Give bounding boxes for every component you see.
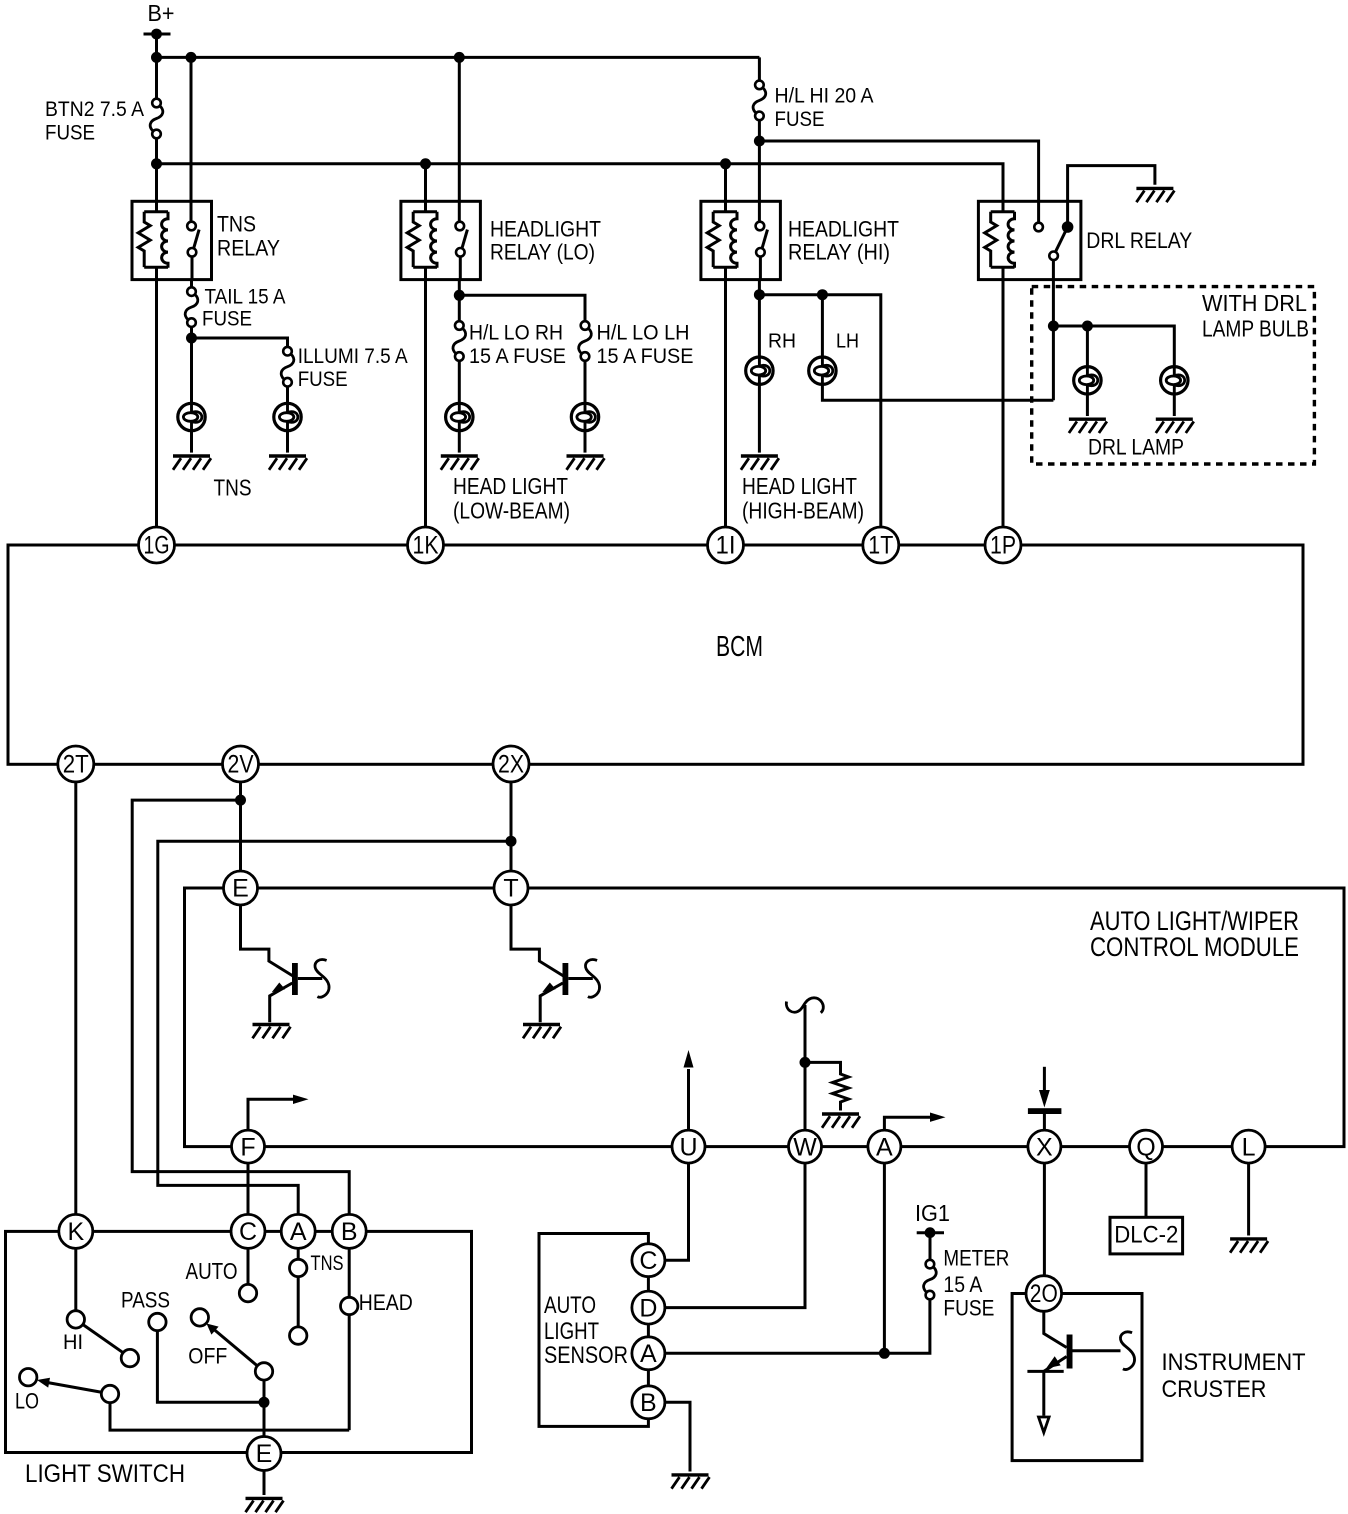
- node connector 2T: [58, 746, 94, 782]
- switch LO contact with arrow: [20, 1369, 37, 1386]
- svg-text:HEAD LIGHT: HEAD LIGHT: [742, 473, 857, 499]
- svg-text:IG1: IG1: [915, 1200, 950, 1226]
- node connector Q: [1130, 1130, 1163, 1163]
- wire: LH high-beam lamp to DRL relay: [822, 384, 1053, 400]
- wire: top B+ bus: [157, 56, 760, 59]
- wire: sensor B to ground: [665, 1402, 690, 1471]
- svg-text:1T: 1T: [868, 532, 893, 560]
- wire: LO relay coil to BCM 1K: [424, 280, 427, 529]
- node connector A (light switch): [281, 1214, 315, 1248]
- wire: 2X to module T and to light switch A: [510, 781, 513, 872]
- node connector 2V: [223, 746, 259, 782]
- svg-text:FUSE: FUSE: [943, 1296, 994, 1321]
- switch TNS contact: [297, 1248, 300, 1260]
- svg-text:HEADLIGHT: HEADLIGHT: [490, 217, 601, 242]
- svg-text:CRUSTER: CRUSTER: [1162, 1376, 1267, 1403]
- fuse METER 15 A: [929, 1233, 932, 1260]
- node junction below TAIL fuse: [186, 333, 197, 344]
- ground (low-beam LH lamp): [567, 456, 605, 470]
- svg-text:TNS: TNS: [311, 1252, 344, 1275]
- switch PASS contact: [149, 1313, 166, 1330]
- svg-text:TNS: TNS: [214, 475, 252, 501]
- node connector C (light switch): [231, 1214, 265, 1248]
- wire/arrow above A: [884, 1117, 931, 1130]
- svg-text:15 A FUSE: 15 A FUSE: [469, 345, 566, 368]
- wire: sensor C to module U: [665, 1163, 689, 1260]
- svg-text:LH: LH: [836, 331, 859, 353]
- node connector 1I: [708, 527, 744, 563]
- ground (resistor): [822, 1114, 860, 1128]
- node connector U: [672, 1130, 705, 1163]
- node connector L: [1232, 1130, 1265, 1163]
- svg-text:RELAY (LO): RELAY (LO): [490, 240, 595, 265]
- node junction DRL feed: [1048, 321, 1059, 332]
- relay HEADLIGHT RELAY (HI): [701, 201, 781, 279]
- node connector 2X: [493, 746, 529, 782]
- node connector B (sensor): [632, 1386, 665, 1419]
- module INSTRUMENT CRUSTER: [1012, 1294, 1142, 1461]
- wire: B+ bus verticals to relay switches: [191, 57, 759, 201]
- svg-text:BTN2 7.5 A: BTN2 7.5 A: [45, 97, 145, 121]
- svg-text:RH: RH: [768, 331, 796, 353]
- lamp head light low-beam LH: [584, 361, 587, 404]
- wire: second bus (after BTN2 fuse): [157, 164, 1004, 202]
- node connector A (sensor): [632, 1337, 665, 1370]
- relay TNS RELAY: [132, 201, 212, 279]
- module AUTO LIGHT/WIPER CONTROL MODULE: [185, 888, 1345, 1147]
- resistor (pull-down on W line): [805, 1062, 849, 1110]
- svg-text:AUTO: AUTO: [544, 1292, 596, 1319]
- svg-text:1I: 1I: [716, 532, 736, 560]
- node connector 1T: [863, 527, 899, 563]
- switch OFF contact with arrow: [191, 1309, 208, 1326]
- node connector 1K: [408, 527, 444, 563]
- node connector K: [59, 1214, 93, 1248]
- wire: LO blade to B line: [110, 1402, 349, 1430]
- svg-text:L: L: [1242, 1133, 1256, 1161]
- wire: X to instrument cluster 2O: [1043, 1163, 1046, 1276]
- svg-text:D: D: [639, 1294, 657, 1322]
- svg-text:B: B: [341, 1218, 358, 1246]
- wire/arrow above F: [248, 1099, 295, 1130]
- fuse TAIL 15 A: [190, 280, 193, 338]
- ground (high-beam RH lamp): [741, 456, 779, 470]
- svg-text:2V: 2V: [228, 751, 254, 779]
- svg-text:(LOW-BEAM): (LOW-BEAM): [453, 498, 570, 524]
- svg-text:METER: METER: [943, 1246, 1009, 1271]
- wire: F to light switch C: [247, 1163, 250, 1215]
- svg-text:2O: 2O: [1030, 1280, 1058, 1308]
- node junction below H/L HI fuse: [754, 136, 765, 147]
- relay HEADLIGHT RELAY (LO): [401, 201, 481, 279]
- lamp DRL left: [1086, 326, 1089, 367]
- switch HI contact: [74, 1248, 77, 1312]
- lamp TNS right: [286, 387, 289, 404]
- svg-text:INSTRUMENT: INSTRUMENT: [1162, 1349, 1306, 1376]
- svg-text:H/L LO LH: H/L LO LH: [597, 322, 690, 345]
- svg-text:ILLUMI 7.5 A: ILLUMI 7.5 A: [298, 344, 409, 368]
- node connector C (sensor): [632, 1244, 665, 1277]
- svg-text:PASS: PASS: [121, 1288, 170, 1313]
- node junction on B+ bus at TNS feed: [151, 52, 162, 63]
- svg-text:DRL RELAY: DRL RELAY: [1086, 228, 1192, 253]
- wire: second bus verticals to relay coils: [426, 164, 726, 202]
- svg-text:FUSE: FUSE: [298, 367, 348, 391]
- fuse BTN2 7.5 A: [155, 57, 158, 163]
- ground (TNS right lamp): [269, 456, 307, 470]
- lamp TNS left: [190, 338, 193, 404]
- svg-text:H/L HI 20 A: H/L HI 20 A: [775, 84, 875, 108]
- svg-text:C: C: [239, 1218, 257, 1246]
- wire/arrow above U: [687, 1069, 690, 1130]
- wire: HI relay switch to lamps and BCM 1T: [758, 280, 761, 295]
- svg-text:2X: 2X: [498, 751, 524, 779]
- svg-text:RELAY: RELAY: [217, 236, 280, 261]
- svg-text:LIGHT: LIGHT: [544, 1318, 599, 1345]
- fuse H/L LO LH 15 A: [579, 321, 592, 361]
- node connector E (module top): [224, 871, 258, 905]
- wire above W with squiggle and resistor to ground: [804, 1005, 807, 1130]
- svg-text:HEAD: HEAD: [359, 1290, 413, 1315]
- svg-text:1P: 1P: [990, 532, 1016, 560]
- svg-text:LO: LO: [15, 1389, 39, 1414]
- svg-text:FUSE: FUSE: [775, 107, 825, 131]
- fuse H/L LO RH 15 A: [458, 295, 461, 321]
- fuse ILLUMI 7.5 A: [281, 347, 294, 387]
- svg-text:U: U: [679, 1133, 697, 1161]
- svg-text:AUTO: AUTO: [186, 1258, 238, 1284]
- ground (TNS left lamp): [173, 456, 211, 470]
- svg-text:W: W: [793, 1133, 817, 1161]
- node junction on B+ bus at headlight LO relay switch: [454, 52, 465, 63]
- svg-text:X: X: [1036, 1133, 1053, 1161]
- svg-text:TAIL 15 A: TAIL 15 A: [205, 285, 287, 309]
- wire: H/L HI fuse to DRL relay switch: [759, 141, 1038, 223]
- svg-text:HEADLIGHT: HEADLIGHT: [788, 217, 899, 242]
- svg-text:(HIGH-BEAM): (HIGH-BEAM): [742, 498, 864, 524]
- svg-text:FUSE: FUSE: [45, 121, 95, 145]
- wire: TNS relay coil to BCM 1G: [155, 280, 158, 529]
- switch AUTO contact: [247, 1248, 250, 1285]
- module AUTO LIGHT SENSOR: [539, 1234, 648, 1427]
- node connector T (module top): [494, 871, 528, 905]
- ground (L): [1230, 1239, 1268, 1253]
- svg-text:LIGHT SWITCH: LIGHT SWITCH: [25, 1460, 185, 1488]
- svg-text:TNS: TNS: [217, 212, 256, 237]
- svg-text:FUSE: FUSE: [202, 307, 252, 331]
- switch HEAD contact: [348, 1248, 351, 1298]
- box WITH DRL LAMP BULB (dashed): [1032, 287, 1315, 464]
- svg-text:A: A: [876, 1133, 893, 1161]
- node junction below LO relay switch: [458, 280, 461, 296]
- relay DRL RELAY: [978, 201, 1081, 279]
- node connector B (light switch): [332, 1214, 366, 1248]
- svg-text:HEAD LIGHT: HEAD LIGHT: [453, 473, 568, 499]
- ground (light switch E): [263, 1470, 266, 1495]
- svg-text:1K: 1K: [413, 532, 439, 560]
- wire to ILLUMI fuse: [192, 338, 288, 347]
- wire: sensor A to module A and METER fuse: [665, 1300, 930, 1354]
- node junction on B+ bus at TNS relay switch: [186, 52, 197, 63]
- node connector X: [1028, 1130, 1061, 1163]
- ground (low-beam RH lamp): [441, 456, 479, 470]
- box DLC-2: [1110, 1217, 1183, 1254]
- svg-text:LAMP BULB: LAMP BULB: [1202, 316, 1309, 342]
- node connector 2O: [1026, 1276, 1062, 1312]
- svg-text:C: C: [639, 1247, 657, 1275]
- node connector E (light switch bottom): [247, 1437, 281, 1471]
- svg-text:K: K: [67, 1218, 84, 1246]
- svg-text:B+: B+: [148, 0, 175, 26]
- svg-text:H/L LO RH: H/L LO RH: [469, 322, 563, 345]
- svg-text:OFF: OFF: [188, 1344, 227, 1369]
- wire: 2V to module E and to light switch B: [239, 781, 242, 872]
- svg-text:Q: Q: [1136, 1133, 1155, 1161]
- wire: DRL relay coil to BCM 1P: [1002, 280, 1005, 529]
- wire: L to ground: [1247, 1163, 1250, 1235]
- svg-text:BCM: BCM: [716, 631, 763, 663]
- svg-text:15 A FUSE: 15 A FUSE: [597, 345, 694, 368]
- lamp DRL right: [1161, 367, 1188, 394]
- box LIGHT SWITCH: [6, 1231, 472, 1452]
- ground (sensor B): [672, 1475, 710, 1489]
- svg-text:RELAY (HI): RELAY (HI): [788, 240, 890, 265]
- svg-text:HI: HI: [63, 1331, 83, 1354]
- svg-text:DLC-2: DLC-2: [1114, 1222, 1178, 1249]
- module BCM: [8, 545, 1303, 764]
- node connector W: [789, 1130, 822, 1163]
- ground (DRL right lamp): [1156, 419, 1194, 433]
- svg-text:E: E: [232, 875, 249, 903]
- svg-text:2T: 2T: [63, 751, 89, 779]
- transistor Q2 (inside module, from T): [511, 905, 564, 976]
- wire: sensor D to module W: [665, 1163, 805, 1308]
- transistor Q3 (instrument cluster): [1044, 1311, 1067, 1347]
- wire: HI relay coil to BCM 1I: [724, 280, 727, 529]
- wire: Q to DLC-2: [1145, 1163, 1148, 1217]
- svg-text:DRL LAMP: DRL LAMP: [1088, 435, 1184, 460]
- svg-text:SENSOR: SENSOR: [544, 1342, 628, 1369]
- transistor Q1 (inside module, from E): [241, 905, 294, 976]
- ground (DRL relay contact): [1068, 166, 1155, 227]
- svg-text:CONTROL MODULE: CONTROL MODULE: [1090, 932, 1299, 962]
- wire: OFF blade to E: [263, 1379, 266, 1437]
- node connector F: [232, 1130, 265, 1163]
- svg-text:E: E: [256, 1440, 273, 1468]
- wire: 2T to light switch K: [74, 781, 77, 1215]
- node connector 1G: [139, 527, 175, 563]
- fuse H/L HI 20 A: [758, 57, 761, 141]
- ground (DRL left lamp): [1069, 419, 1107, 433]
- node connector 1P: [985, 527, 1021, 563]
- svg-text:F: F: [240, 1133, 255, 1161]
- svg-text:A: A: [290, 1218, 307, 1246]
- node connector D (sensor): [632, 1291, 665, 1324]
- node connector A (module): [868, 1130, 901, 1163]
- svg-text:A: A: [640, 1340, 657, 1368]
- wire/arrow+bar above X: [1043, 1114, 1046, 1130]
- svg-text:15 A: 15 A: [943, 1272, 982, 1297]
- svg-text:1G: 1G: [144, 532, 170, 560]
- svg-text:T: T: [503, 875, 518, 903]
- svg-text:WITH DRL: WITH DRL: [1202, 290, 1307, 316]
- svg-text:B: B: [640, 1389, 657, 1417]
- lamp head light low-beam RH: [458, 361, 461, 404]
